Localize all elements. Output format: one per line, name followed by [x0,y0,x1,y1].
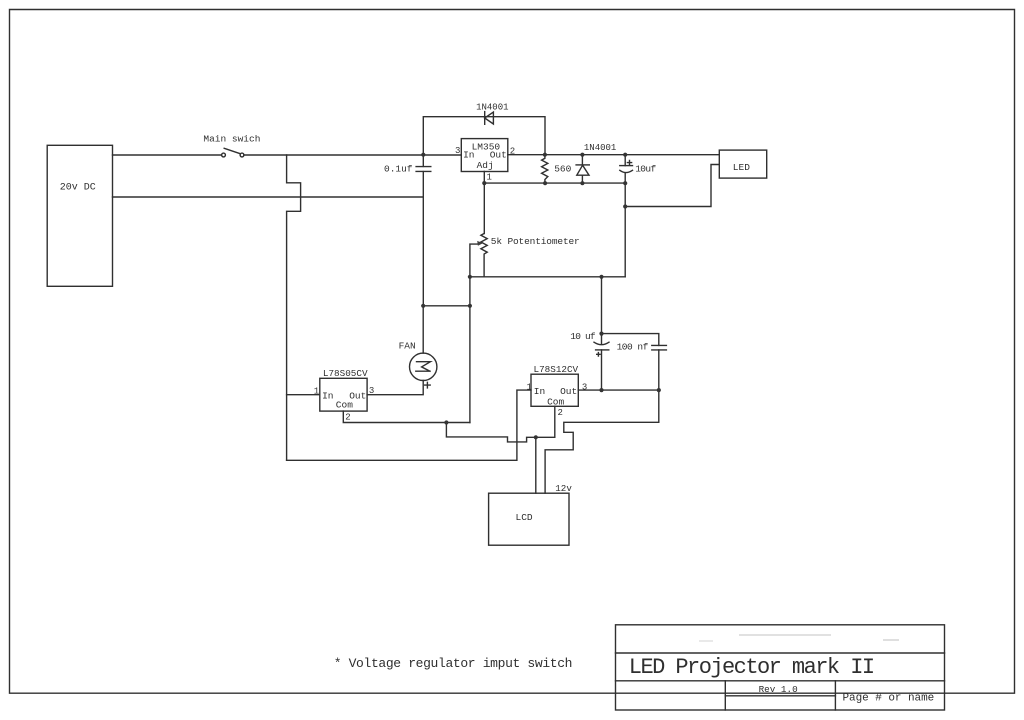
svg-text:10 uf: 10 uf [570,331,596,342]
svg-text:LED Projector mark II: LED Projector mark II [629,655,874,680]
svg-text:Adj: Adj [477,160,494,171]
wire fan tee horizontal [423,305,470,307]
capacitor C2 10uf polarized [620,155,657,184]
capacitor C3 10 uf polarized [570,277,609,390]
wire Adj pin down to potentiometer [483,183,485,233]
wire U3 Out rail [578,389,659,391]
junction dots [421,153,661,440]
svg-text:3: 3 [455,146,460,156]
svg-text:Com: Com [547,396,564,407]
fan motor M1 [367,306,437,395]
wire from switch to LM350 In (node A) [244,154,461,156]
wire U3 pin2 drop [554,406,556,437]
wire ground branch with jog to LCD node [446,423,554,442]
svg-text:Out: Out [490,150,507,161]
svg-text:5k Potentiometer: 5k Potentiometer [491,236,580,247]
wire vertical rail from switch node down with jog [287,155,301,460]
regulator U1 LM350 box [461,139,508,172]
wire potentiometer bottom rail [470,276,625,278]
svg-text:Com: Com [336,400,353,411]
svg-text:In: In [322,390,333,401]
power source B1 20v DC box [47,145,112,286]
LCD load box [489,493,569,545]
wire right vertical from C2 bottom to pot rail [624,183,626,277]
svg-text:Rev 1.0: Rev 1.0 [759,684,798,695]
regulator U3 L78S12CV box [531,364,579,408]
wire branch to L78S05CV In pin [287,394,320,396]
wire LM350 Adj rail [484,172,625,184]
svg-text:FAN: FAN [399,341,416,352]
title block [616,625,945,710]
svg-text:2: 2 [558,408,563,418]
svg-text:1: 1 [527,383,532,393]
switch SW1 Main swich [203,133,260,157]
wire regulator input bottom rail [287,390,531,460]
svg-text:10uf: 10uf [635,164,656,175]
svg-text:100 nf: 100 nf [617,341,649,352]
LED load box [719,150,766,178]
svg-text:1N4001: 1N4001 [476,103,508,113]
svg-text:LED: LED [733,162,750,173]
svg-text:12v: 12v [555,483,572,494]
wire 12v feed staircase to LCD [545,390,659,493]
svg-text:1: 1 [487,173,492,183]
resistor R1 560 [542,155,572,184]
svg-text:1N4001: 1N4001 [584,143,616,153]
wire LCD left drop [535,437,537,493]
svg-text:In: In [534,386,545,397]
capacitor C4 100 nf [602,334,667,391]
svg-text:Page # or name: Page # or name [843,693,935,705]
wire diode bypass loop over LM350 [423,117,545,155]
potentiometer R2 5k [470,234,580,277]
wire LED return path [625,165,719,207]
diode D2 1N4001 [576,143,616,183]
wire LM350 Out to LED [508,154,720,156]
capacitor C1 0.1uf [384,155,431,306]
svg-text:3: 3 [369,386,374,396]
svg-text:In: In [463,150,474,161]
regulator U2 L78S05CV box [320,368,368,411]
svg-text:20v DC: 20v DC [60,182,96,193]
wire U2 Com rail [343,411,470,422]
svg-text:2: 2 [345,413,350,423]
wire from B1 bottom terminal to 0.1uf rail [113,196,424,198]
svg-text:3: 3 [582,383,587,393]
svg-text:LCD: LCD [516,512,533,523]
svg-text:L78S12CV: L78S12CV [534,364,579,375]
diode D1 1N4001 [476,103,508,125]
svg-text:1: 1 [314,386,319,396]
wire from B1 top terminal to switch [113,154,222,156]
svg-text:L78S05CV: L78S05CV [323,368,368,379]
wire wiper node down to fan tee [469,277,471,423]
svg-text:560: 560 [554,164,571,175]
faint erased smudge in title block [700,635,898,641]
svg-text:* Voltage regulator imput swit: * Voltage regulator imput switch [334,656,572,671]
svg-text:Main swich: Main swich [203,133,260,144]
svg-text:0.1uf: 0.1uf [384,163,413,174]
